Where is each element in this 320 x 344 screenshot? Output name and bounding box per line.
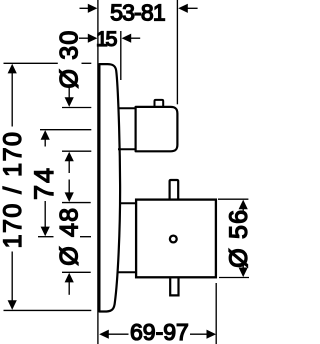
wire: extension line at plate front (for 15) [120,31,122,80]
svg-text:74: 74 [29,166,59,200]
node: dimension O48 (thermostat sleeve diameter) [62,180,91,295]
node: dimension 53-81 arrows [80,4,198,13]
wall plate (escutcheon, side view) [99,64,120,311]
grip tab on thermostat handle (bottom) [170,278,178,295]
wire: wall reference extension line (left, full height) [97,0,99,344]
node: dimension 74 (handle centres distance) [38,130,91,237]
grip tab on shut-off knob [155,100,164,106]
svg-text:53-81: 53-81 [110,0,165,25]
node: dimension 15 arrows [79,34,140,43]
thermostat sleeve (lower, O48) [118,203,136,272]
svg-text:Ø 56: Ø 56 [225,209,250,268]
centre screw dot on thermostat handle [170,236,177,243]
svg-text:5: 5 [106,27,118,51]
wire: extension line at front of shut-off handle (for 53-81) [176,0,178,104]
thermostat handle body (lower, O56) [136,200,216,278]
svg-text:Ø 30: Ø 30 [55,30,83,89]
shut-off handle knob (upper, O30) [136,107,178,151]
svg-text:69-97: 69-97 [130,319,189,344]
wire: extension line below thermostat handle (for 69-97) [215,283,217,344]
node: dimension O56 (thermostat handle diameter) [218,199,249,277]
svg-text:Ø 48: Ø 48 [55,207,83,266]
node: dimension 69-97 arrows [99,330,216,339]
shut-off handle sleeve (upper) [118,108,136,149]
grip tab on thermostat handle (top) [170,180,179,199]
node: dimension 170/170 (plate height) [4,63,92,310]
svg-text:170 / 170: 170 / 170 [0,131,27,249]
node: dimension O30 (shut-off handle diameter) [62,86,91,173]
